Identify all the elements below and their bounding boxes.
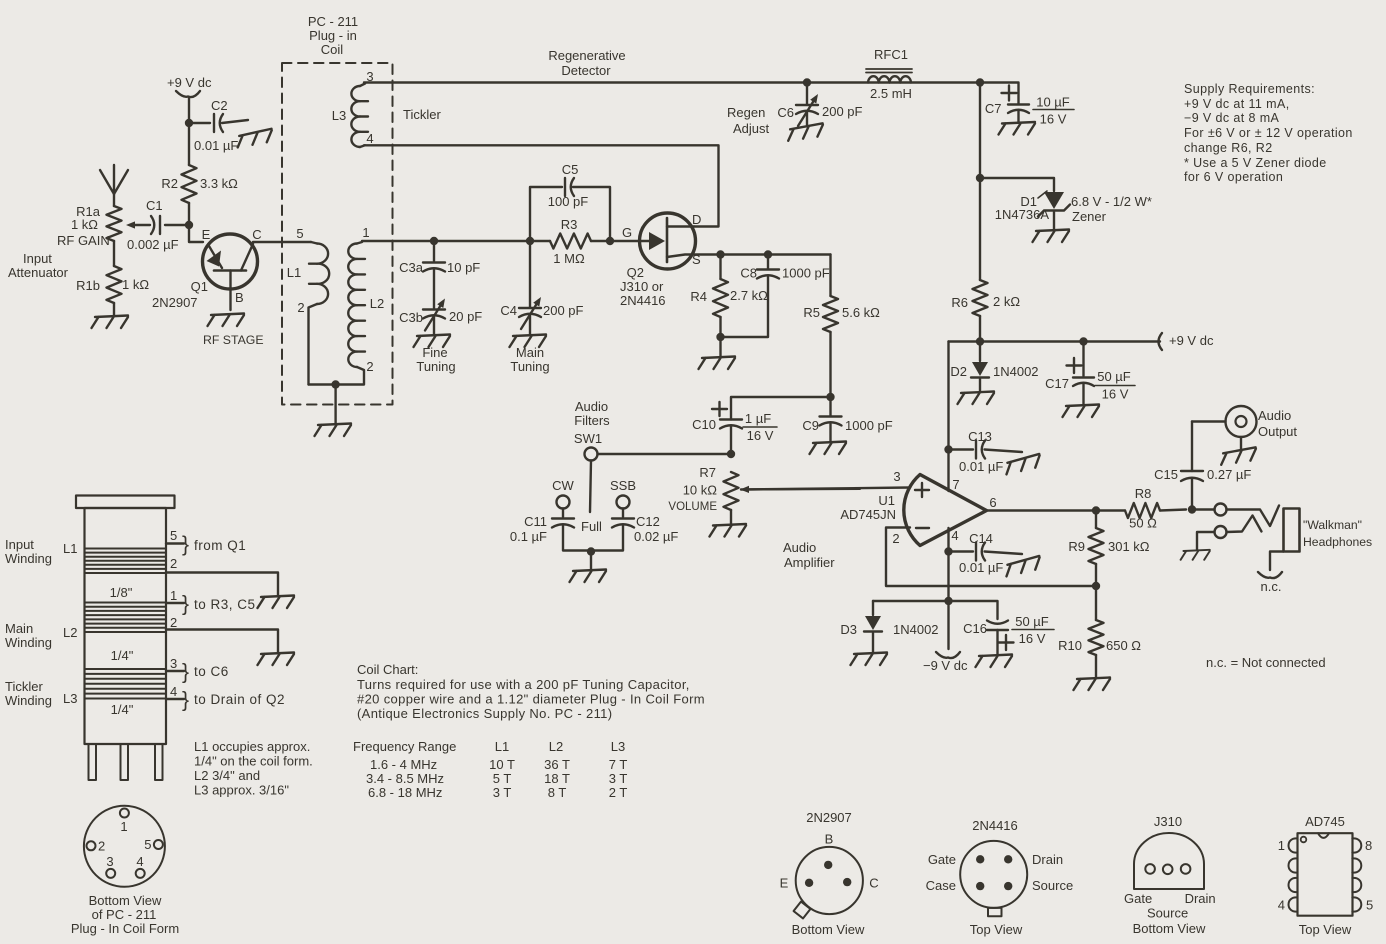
label RF STAGE xyxy=(203,333,264,347)
svg-text:L3: L3 xyxy=(611,739,625,754)
transistor Q2 J310/2N4416 JFET xyxy=(640,213,721,269)
transistor Q1 2N2907 xyxy=(152,227,262,310)
svg-text:B: B xyxy=(825,832,834,847)
svg-text:C14: C14 xyxy=(969,531,993,546)
svg-text:C3a: C3a xyxy=(399,260,424,275)
coil chart row 3.4-8.5 MHz xyxy=(366,771,627,786)
svg-text:Regen: Regen xyxy=(727,105,765,120)
svg-text:D2: D2 xyxy=(950,364,967,379)
-9V rail to C16 xyxy=(949,601,998,619)
svg-text:RFC1: RFC1 xyxy=(874,47,908,62)
svg-text:Filters: Filters xyxy=(574,413,610,428)
label Regen Adjust xyxy=(727,105,770,136)
label 1/4 inch (L3) xyxy=(111,702,134,717)
headphone plug body xyxy=(1284,509,1300,552)
svg-text:+9 V dc at 11 mA,: +9 V dc at 11 mA, xyxy=(1184,97,1290,111)
capacitor C3a 10 pF xyxy=(399,241,480,308)
label S (source) xyxy=(692,252,701,267)
ground after C2 xyxy=(236,129,274,148)
resistor R3 1M xyxy=(550,217,640,266)
svg-text:For ±6 V or ± 12 V operation: For ±6 V or ± 12 V operation xyxy=(1184,126,1353,140)
svg-text:L1: L1 xyxy=(495,739,509,754)
svg-text:CW: CW xyxy=(552,478,574,493)
capacitor C17 50uF 16V xyxy=(1045,342,1135,406)
svg-text:16 V: 16 V xyxy=(747,428,774,443)
node C3a xyxy=(430,237,438,245)
svg-text:2.7 kΩ: 2.7 kΩ xyxy=(730,288,768,303)
wire op-amp pin4 down xyxy=(947,528,949,601)
wire op-amp pin2 feedback xyxy=(886,528,1096,587)
svg-text:10 pF: 10 pF xyxy=(447,260,480,275)
svg-text:L2 3/4" and: L2 3/4" and xyxy=(194,768,260,783)
headphone plug tip spring xyxy=(1227,506,1280,527)
svg-text:5: 5 xyxy=(144,837,151,852)
svg-text:2: 2 xyxy=(98,839,105,854)
svg-text:2 kΩ: 2 kΩ xyxy=(993,294,1020,309)
node C2/R2 xyxy=(185,119,193,127)
svg-text:Adjust: Adjust xyxy=(733,121,770,136)
+9V terminal xyxy=(1159,333,1214,350)
svg-text:Coil: Coil xyxy=(321,42,344,57)
svg-text:Winding: Winding xyxy=(5,635,52,650)
svg-text:Main: Main xyxy=(516,345,544,360)
svg-text:1: 1 xyxy=(1278,838,1285,853)
wire coil common to ground xyxy=(309,380,340,424)
svg-text:2: 2 xyxy=(892,531,899,546)
svg-text:Tickler: Tickler xyxy=(5,679,43,694)
svg-text:C16: C16 xyxy=(963,621,987,636)
wire L3 pin3 to supply rail xyxy=(364,81,980,83)
J310 case outline xyxy=(1134,833,1204,889)
label CW xyxy=(552,478,574,493)
switch SW1 audio filters xyxy=(574,399,731,512)
svg-text:L1 occupies approx.: L1 occupies approx. xyxy=(194,739,310,754)
ground under C6 xyxy=(786,123,824,140)
svg-text:3.4 - 8.5 MHz: 3.4 - 8.5 MHz xyxy=(366,771,444,786)
svg-text:200 pF: 200 pF xyxy=(822,104,863,119)
node R9 top xyxy=(1092,506,1100,514)
2N2907 pinout label xyxy=(806,810,852,847)
svg-text:of PC - 211: of PC - 211 xyxy=(92,907,157,922)
svg-text:L1: L1 xyxy=(287,265,301,280)
svg-text:C15: C15 xyxy=(1154,467,1178,482)
svg-text:50 µF: 50 µF xyxy=(1015,614,1049,629)
label Audio Amplifier xyxy=(783,540,835,570)
svg-text:R5: R5 xyxy=(803,305,820,320)
svg-text:2.5 mH: 2.5 mH xyxy=(870,86,912,101)
pin 1 lead to R3 C5 xyxy=(166,588,256,616)
svg-text:}: } xyxy=(182,689,189,712)
svg-text:3: 3 xyxy=(170,656,177,671)
svg-text:Top View: Top View xyxy=(1299,922,1352,937)
svg-text:7: 7 xyxy=(952,477,959,492)
label Input Winding L1 xyxy=(5,537,77,566)
svg-text:S: S xyxy=(692,252,701,267)
svg-text:AD745: AD745 xyxy=(1305,814,1345,829)
svg-text:Zener: Zener xyxy=(1072,209,1107,224)
svg-text:1 µF: 1 µF xyxy=(745,411,771,426)
svg-text:Winding: Winding xyxy=(5,693,52,708)
inductor L1 input winding xyxy=(287,242,329,385)
svg-text:Bottom View: Bottom View xyxy=(89,893,162,908)
node R7 top xyxy=(727,450,735,458)
potentiometer R7 10k volume xyxy=(668,465,860,524)
ground under C7 xyxy=(999,122,1036,135)
svg-text:J310 or: J310 or xyxy=(620,279,664,294)
label G (gate) xyxy=(622,225,632,240)
inductor RFC1 2.5 mH xyxy=(866,47,912,101)
svg-text:Case: Case xyxy=(926,878,956,893)
ground under C4 xyxy=(510,335,547,348)
pin label 5 (L1 top) xyxy=(296,226,303,241)
svg-text:1000 pF: 1000 pF xyxy=(782,266,830,281)
svg-text:Detector: Detector xyxy=(561,63,611,78)
svg-text:C4: C4 xyxy=(500,303,517,318)
AD745 body xyxy=(1298,833,1353,916)
svg-text:C7: C7 xyxy=(985,101,1002,116)
svg-text:1 kΩ: 1 kΩ xyxy=(71,217,98,232)
node RFC1 right / C7 xyxy=(976,78,984,86)
bottom view pin 2 xyxy=(87,839,106,854)
svg-text:R4: R4 xyxy=(690,289,707,304)
-9V supply terminal xyxy=(923,601,968,673)
ground under D3 xyxy=(851,653,888,666)
svg-text:C10: C10 xyxy=(692,417,716,432)
ground for L1 pin2 xyxy=(258,596,295,609)
svg-text:VOLUME: VOLUME xyxy=(668,501,717,513)
J310 pin labels xyxy=(1124,891,1216,921)
node C17 xyxy=(1079,337,1087,345)
ground under C17 xyxy=(1063,405,1100,418)
ground under R10 xyxy=(1074,678,1111,691)
svg-text:Tuning: Tuning xyxy=(416,359,455,374)
headphone ring contact xyxy=(1197,526,1227,550)
svg-text:0.01 µF: 0.01 µF xyxy=(194,138,238,153)
pin 5 lead from Q1 xyxy=(166,528,246,556)
svg-text:4: 4 xyxy=(366,131,373,146)
audio output jack xyxy=(1192,406,1297,449)
svg-text:Input: Input xyxy=(23,251,52,266)
diode D3 1N4002 xyxy=(840,601,938,653)
ground under ring contact xyxy=(1181,550,1210,560)
J310 pins xyxy=(1145,864,1190,874)
svg-text:E: E xyxy=(202,227,211,242)
wire R4 node to ground xyxy=(719,337,721,357)
headphone sleeve n.c. xyxy=(1258,552,1284,595)
svg-text:from Q1: from Q1 xyxy=(194,538,246,553)
svg-text:Source: Source xyxy=(1147,906,1188,921)
wire R1a-R1b xyxy=(113,241,115,266)
label Tickler xyxy=(403,107,441,122)
svg-text:0.01 µF: 0.01 µF xyxy=(959,459,1003,474)
node Q2 source xyxy=(716,250,724,258)
node -9V / pin4 rail xyxy=(944,597,952,605)
svg-text:R8: R8 xyxy=(1135,486,1152,501)
svg-text:Q1: Q1 xyxy=(191,279,208,294)
coil chart row 6.8-18 MHz xyxy=(368,785,627,800)
resistor R9 301k xyxy=(1068,511,1149,587)
svg-text:Bottom View: Bottom View xyxy=(792,922,865,937)
pin label 1 (L2 top) xyxy=(362,225,369,240)
ground under Q1 base xyxy=(208,314,245,327)
svg-text:C6: C6 xyxy=(777,105,794,120)
svg-text:D3: D3 xyxy=(840,622,857,637)
svg-text:Gate: Gate xyxy=(1124,891,1152,906)
label Main Tuning xyxy=(510,345,549,374)
svg-text:U1: U1 xyxy=(878,493,895,508)
label 1/8 inch xyxy=(110,585,133,600)
label SSB xyxy=(610,478,636,493)
svg-text:8 T: 8 T xyxy=(548,785,567,800)
svg-text:0.1 µF: 0.1 µF xyxy=(510,529,547,544)
svg-text:4: 4 xyxy=(170,684,177,699)
svg-text:C: C xyxy=(252,227,261,242)
coil form body xyxy=(85,508,167,744)
svg-text:4: 4 xyxy=(136,854,143,869)
node C4/C5/R3 xyxy=(526,237,534,245)
ground under audio jack xyxy=(1219,447,1257,464)
svg-text:C1: C1 xyxy=(146,198,163,213)
svg-text:2: 2 xyxy=(170,556,177,571)
svg-text:L1: L1 xyxy=(63,541,77,556)
svg-text:2N4416: 2N4416 xyxy=(620,293,666,308)
svg-text:E: E xyxy=(780,876,789,891)
svg-text:5: 5 xyxy=(170,528,177,543)
svg-text:L3 approx. 3/16": L3 approx. 3/16" xyxy=(194,783,289,798)
svg-text:Audio: Audio xyxy=(575,399,608,414)
pin 2 lead (L1) to ground xyxy=(166,556,278,596)
svg-text:L2: L2 xyxy=(549,739,563,754)
svg-text:C13: C13 xyxy=(968,429,992,444)
svg-text:1/4": 1/4" xyxy=(111,702,134,717)
wire audio rail xyxy=(731,397,831,420)
ground after C14 (tilted) xyxy=(1004,556,1042,576)
svg-text:change R6, R2: change R6, R2 xyxy=(1184,141,1273,155)
pin 3 lead to C6 xyxy=(166,656,229,684)
zener diode D1 1N4736A xyxy=(980,178,1070,230)
svg-text:2: 2 xyxy=(170,615,177,630)
coil chart heading xyxy=(357,662,705,721)
svg-text:#20 copper wire and a 1.12" di: #20 copper wire and a 1.12" diameter Plu… xyxy=(357,692,705,707)
svg-text:to C6: to C6 xyxy=(194,664,229,679)
wire source rail to R5 xyxy=(721,253,831,255)
svg-text:Drain: Drain xyxy=(1185,891,1216,906)
svg-text:6.8 - 18 MHz: 6.8 - 18 MHz xyxy=(368,785,442,800)
svg-text:(Antique Electronics Supply No: (Antique Electronics Supply No. PC - 211… xyxy=(357,706,612,721)
ground under filter common xyxy=(570,570,607,583)
svg-text:C9: C9 xyxy=(802,418,819,433)
label 1/4 inch (L2) xyxy=(111,648,134,663)
svg-text:R9: R9 xyxy=(1068,539,1085,554)
svg-text:R2: R2 xyxy=(161,176,178,191)
label Regenerative Detector xyxy=(548,48,625,78)
svg-text:Q2: Q2 xyxy=(627,265,644,280)
ground under C16 xyxy=(976,655,1013,668)
svg-text:16 V: 16 V xyxy=(1102,387,1129,402)
capacitor C4 200 pF main tuning xyxy=(500,241,583,335)
svg-text:AD745JN: AD745JN xyxy=(840,507,896,522)
bottom view circle of coil form xyxy=(84,806,165,887)
svg-text:Audio: Audio xyxy=(1258,408,1291,423)
svg-text:C5: C5 xyxy=(562,162,579,177)
capacitor C5 100 pF xyxy=(530,162,610,241)
capacitor C6 200 pF regen adjust xyxy=(777,83,862,127)
svg-text:2 T: 2 T xyxy=(609,785,628,800)
node C14 xyxy=(944,547,952,555)
label D (drain) xyxy=(692,212,701,227)
ground under R4 xyxy=(699,357,736,370)
svg-text:0.01 µF: 0.01 µF xyxy=(959,560,1003,575)
L2 winding hatch xyxy=(86,603,166,633)
svg-text:C: C xyxy=(869,876,878,891)
resistor R2 3.3k xyxy=(161,123,238,225)
AD745 pin numbers xyxy=(1278,838,1373,913)
svg-text:50 Ω: 50 Ω xyxy=(1129,516,1157,531)
capacitor C2 0.01 uF xyxy=(189,98,248,153)
node C6 / regen adjust xyxy=(803,78,811,86)
svg-text:Output: Output xyxy=(1258,424,1297,439)
AD745 left pins xyxy=(1289,838,1298,911)
label Q2 J310 or 2N4416 xyxy=(620,265,666,308)
svg-text:2N2907: 2N2907 xyxy=(152,295,198,310)
J310 bottom view label xyxy=(1133,921,1206,936)
svg-text:Turns required for use with a: Turns required for use with a 200 pF Tun… xyxy=(357,677,690,692)
capacitor C14 0.01 uF xyxy=(949,531,1023,575)
svg-text:R7: R7 xyxy=(699,465,716,480)
svg-text:R3: R3 xyxy=(561,217,578,232)
svg-text:5.6 kΩ: 5.6 kΩ xyxy=(842,305,880,320)
ground under D2 xyxy=(958,392,995,405)
2N4416 top view label xyxy=(970,922,1023,937)
ground under coil common xyxy=(315,424,352,437)
label Input Attenuator xyxy=(8,251,69,280)
svg-text:301 kΩ: 301 kΩ xyxy=(1108,539,1150,554)
svg-text:to Drain of Q2: to Drain of Q2 xyxy=(194,692,285,707)
svg-text:4: 4 xyxy=(1278,898,1285,913)
svg-text:Regenerative: Regenerative xyxy=(548,48,625,63)
switch contact CW xyxy=(557,496,570,509)
op-amp output wire xyxy=(987,509,1125,511)
svg-text:50 µF: 50 µF xyxy=(1097,369,1131,384)
svg-text:SSB: SSB xyxy=(610,478,636,493)
resistor R8 50 xyxy=(1125,486,1186,531)
svg-text:R6: R6 xyxy=(951,295,968,310)
svg-text:Gate: Gate xyxy=(928,852,956,867)
wire R7 wiper to op-amp pin3 xyxy=(741,488,910,490)
bottom view pin 3 xyxy=(106,854,115,878)
svg-text:L2: L2 xyxy=(63,625,77,640)
svg-text:3 T: 3 T xyxy=(493,785,512,800)
L1 winding hatch xyxy=(86,549,166,574)
svg-text:R1b: R1b xyxy=(76,278,100,293)
svg-text:Coil Chart:: Coil Chart: xyxy=(357,662,418,677)
svg-text:1 MΩ: 1 MΩ xyxy=(553,251,585,266)
label PC-211 Plug-in Coil xyxy=(308,14,358,57)
svg-text:2N2907: 2N2907 xyxy=(806,810,852,825)
svg-text:Winding: Winding xyxy=(5,551,52,566)
svg-text:200 pF: 200 pF xyxy=(543,303,584,318)
svg-text:3.3 kΩ: 3.3 kΩ xyxy=(200,176,238,191)
svg-text:D: D xyxy=(692,212,701,227)
svg-text:1: 1 xyxy=(170,588,177,603)
switch contact SSB xyxy=(617,496,630,509)
PC-211 plug-in coil dashed box xyxy=(282,63,393,405)
2N2907 pins xyxy=(805,861,852,887)
svg-text:}: } xyxy=(182,593,189,616)
svg-text:2: 2 xyxy=(366,359,373,374)
svg-text:SW1: SW1 xyxy=(574,431,602,446)
pin 2 lead (L2) to ground xyxy=(166,615,278,653)
wire supply rail down xyxy=(979,83,981,179)
headphone tip contact xyxy=(1192,504,1227,516)
ground under D1 xyxy=(1033,230,1070,243)
svg-text:RF STAGE: RF STAGE xyxy=(203,333,264,347)
svg-text:C11: C11 xyxy=(524,514,547,529)
svg-text:2N4416: 2N4416 xyxy=(972,818,1018,833)
svg-text:B: B xyxy=(235,290,244,305)
coil chart row 1.6-4 MHz xyxy=(370,757,627,772)
diode D2 1N4002 xyxy=(950,342,1038,393)
pin 4 lead to drain of Q2 xyxy=(166,684,285,712)
coil chart table header xyxy=(353,739,625,754)
inductor L2 main winding xyxy=(336,242,385,385)
capacitor C9 1000 pF xyxy=(802,397,892,442)
svg-text:5: 5 xyxy=(1366,898,1373,913)
svg-text:3: 3 xyxy=(893,469,900,484)
svg-text:L3: L3 xyxy=(332,108,346,123)
svg-text:0.27 µF: 0.27 µF xyxy=(1207,467,1251,482)
svg-text:L3: L3 xyxy=(63,691,77,706)
svg-text:Frequency Range: Frequency Range xyxy=(353,739,456,754)
svg-text:1.6 - 4 MHz: 1.6 - 4 MHz xyxy=(370,757,437,772)
svg-text:Attenuator: Attenuator xyxy=(8,265,69,280)
svg-text:}: } xyxy=(182,533,189,556)
svg-text:C2: C2 xyxy=(211,98,228,113)
ground under R7 xyxy=(710,524,747,537)
headphone ring spring xyxy=(1227,516,1262,533)
bottom view pin 5 xyxy=(144,837,163,852)
AD745 right pins xyxy=(1352,838,1361,911)
svg-text:36 T: 36 T xyxy=(544,757,570,772)
svg-text:Drain: Drain xyxy=(1032,852,1063,867)
svg-text:C8: C8 xyxy=(740,266,757,281)
svg-text:3 T: 3 T xyxy=(609,771,628,786)
label Tickler Winding L3 xyxy=(5,679,77,708)
2N4416 case circle xyxy=(960,841,1027,908)
resistor R5 5.6k xyxy=(803,255,880,398)
svg-text:Source: Source xyxy=(1032,878,1073,893)
svg-text:* Use a 5 V Zener diode: * Use a 5 V Zener diode xyxy=(1184,156,1327,170)
+9V rail xyxy=(949,340,1161,342)
wire L2 pin1 to R3 (gate rail) xyxy=(362,240,550,242)
2N2907 case circle xyxy=(796,847,863,914)
svg-text:Plug - In Coil Form: Plug - In Coil Form xyxy=(71,921,179,936)
svg-text:R10: R10 xyxy=(1058,638,1082,653)
L3 winding hatch xyxy=(86,669,166,699)
op-amp U1 AD745JN xyxy=(840,469,996,546)
capacitor C7 10uF 16V xyxy=(980,83,1074,127)
svg-text:Top View: Top View xyxy=(970,922,1023,937)
node C15/output xyxy=(1188,505,1196,513)
capacitor C12 0.02 uF xyxy=(593,509,678,551)
ground after C13 (tilted) xyxy=(1004,454,1042,474)
svg-text:to R3, C5: to R3, C5 xyxy=(194,597,256,612)
svg-text:Audio: Audio xyxy=(783,540,816,555)
label 6.8V zener xyxy=(1071,194,1152,224)
node R9/R10 junction xyxy=(1092,582,1100,590)
svg-text:Tickler: Tickler xyxy=(403,107,441,122)
2N4416 pin labels xyxy=(926,852,1074,893)
